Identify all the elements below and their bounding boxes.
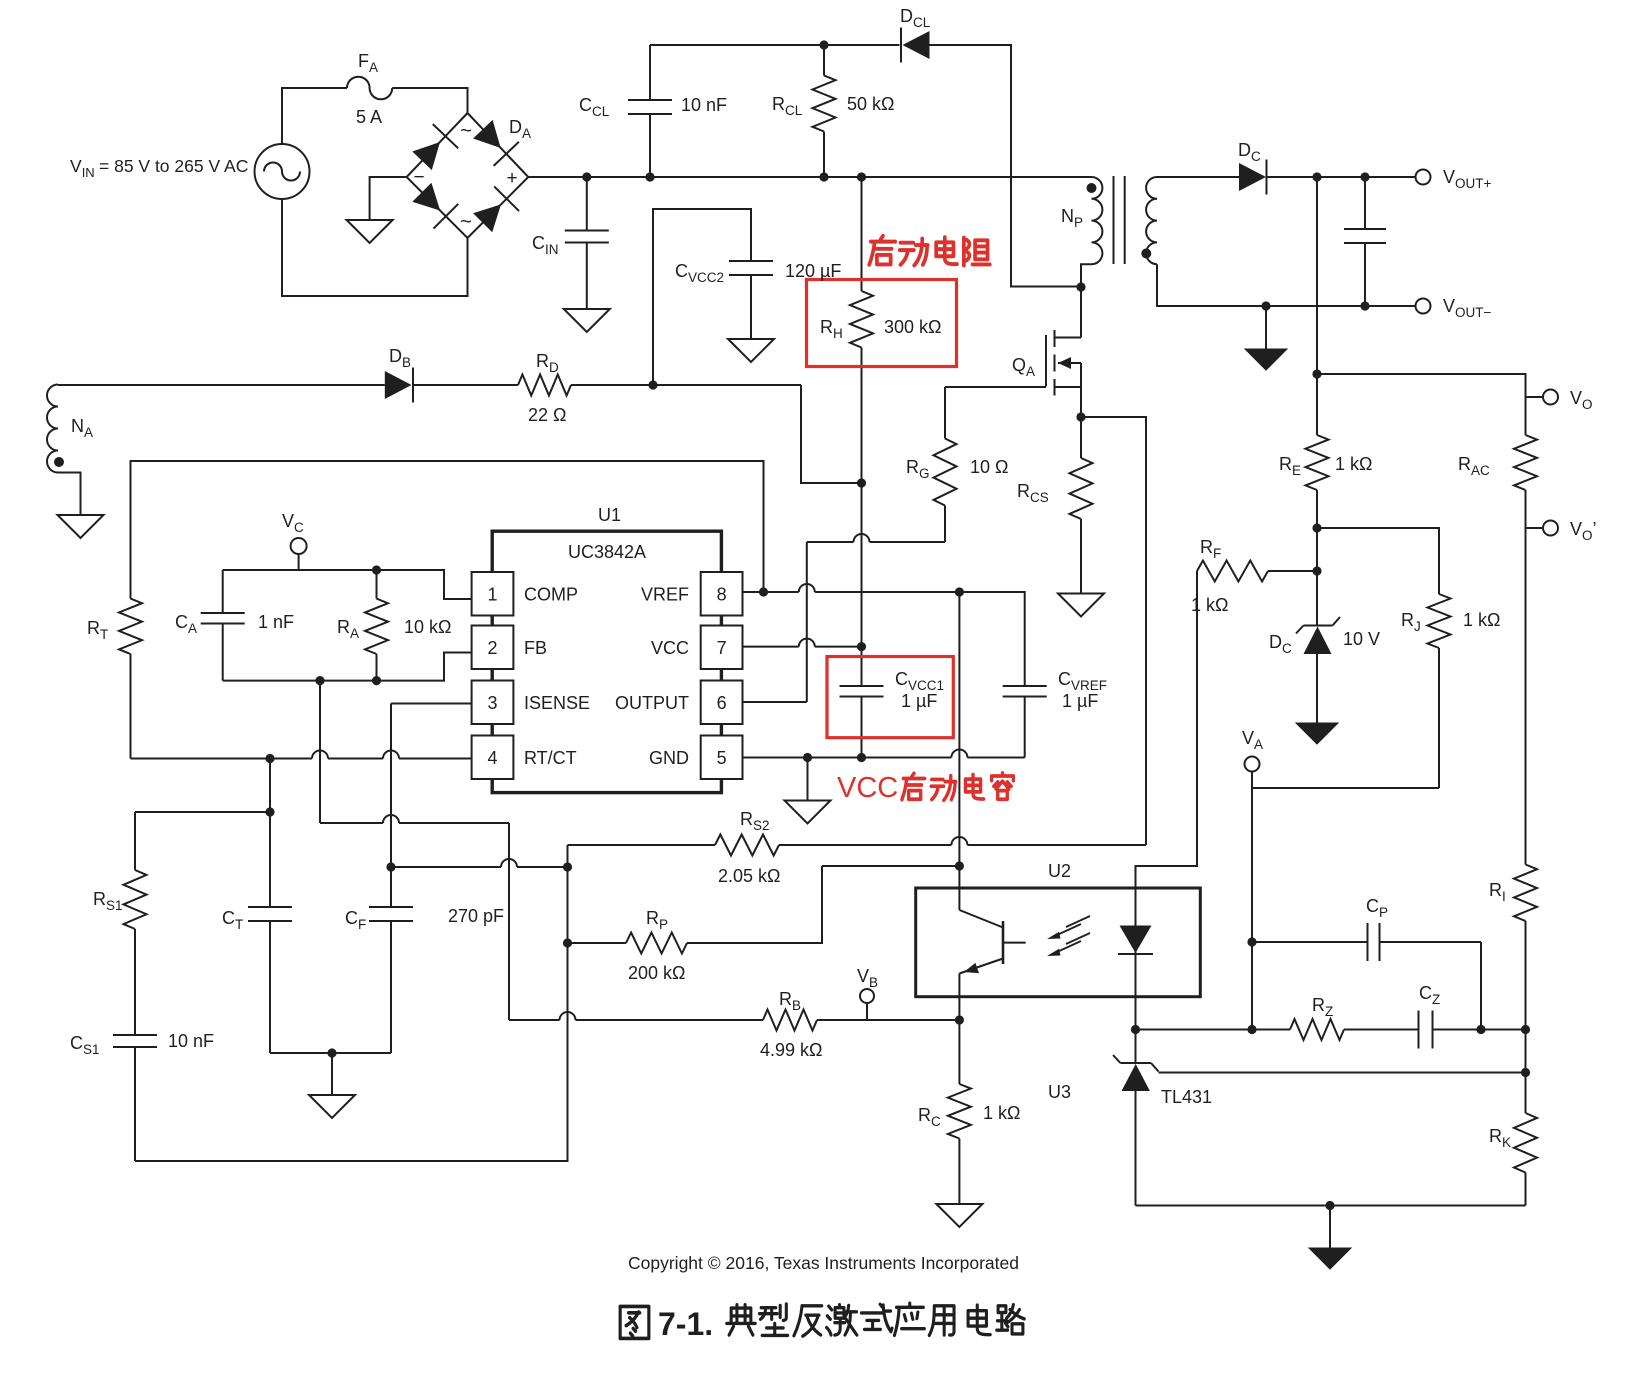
junction source node (1076, 412, 1085, 421)
junction primary drain (1076, 282, 1085, 291)
resistor RH (820, 177, 942, 686)
ground at bridge (347, 220, 393, 243)
wire vref loop rail (131, 461, 764, 599)
wire CVCC2 top loop (653, 209, 751, 385)
svg-text:7-1.: 7-1. (658, 1306, 713, 1342)
wire fuse to bridge top (392, 88, 467, 113)
svg-text:1 kΩ: 1 kΩ (983, 1103, 1020, 1123)
bridge diode bottom-right (473, 186, 519, 232)
svg-text:U2: U2 (1048, 861, 1071, 881)
wire fb tap down (320, 681, 509, 1020)
svg-text:−: − (413, 167, 424, 188)
wire gnd stub down (807, 758, 809, 801)
junction top rail RCL (819, 40, 828, 49)
capacitor CVCC2 (675, 261, 841, 339)
resistor RAC (1458, 435, 1537, 865)
wire VCC node to RH line (801, 385, 862, 483)
svg-text:22 Ω: 22 Ω (528, 405, 566, 425)
svg-text:1: 1 (487, 584, 497, 604)
svg-text:OUTPUT: OUTPUT (615, 693, 689, 713)
optocoupler U2 box (916, 861, 1201, 997)
junction vert RS2 (563, 862, 572, 871)
junction collector (955, 861, 964, 870)
red label vcc startup cap (837, 772, 1013, 804)
phase dot secondary (1141, 249, 1151, 259)
resistor RCL (772, 45, 894, 177)
svg-text:~: ~ (460, 120, 472, 142)
ground at timing (309, 1095, 355, 1118)
resistor RK (1489, 1073, 1537, 1206)
wire source bottom to bridge bottom (282, 199, 468, 296)
wire NA top (58, 384, 385, 386)
svg-text:~: ~ (460, 211, 472, 233)
junction VA CP (1247, 937, 1256, 946)
wire NA to ground (58, 473, 81, 516)
wire RD to VCC node (571, 384, 801, 386)
ground at RCS (1058, 594, 1104, 617)
svg-text:270 pF: 270 pF (448, 906, 504, 926)
capacitor CZ (1419, 983, 1526, 1049)
wire to output ground (1265, 306, 1267, 349)
junction rs1 tap (265, 807, 274, 816)
svg-text:6: 6 (717, 693, 727, 713)
svg-text:300 kΩ: 300 kΩ (884, 317, 942, 337)
wire rtct down (269, 759, 271, 908)
wire vcc pin7 (743, 639, 862, 647)
ground at CVCC2 (728, 339, 774, 362)
wire bottom left rail (135, 845, 568, 1161)
svg-text:VREF: VREF (641, 584, 689, 604)
wire fb tap to RB (509, 1012, 763, 1020)
transformer primary NP (1061, 177, 1102, 264)
svg-text:1 kΩ: 1 kΩ (1463, 610, 1500, 630)
junction out1 (1312, 172, 1321, 181)
resistor RZ (1252, 995, 1419, 1040)
svg-text:1 µF: 1 µF (1062, 691, 1098, 711)
resistor RC (918, 1020, 1020, 1204)
wire vref pin8 (743, 591, 764, 593)
terminal VO (1526, 388, 1593, 412)
bridge diode top-left (412, 124, 458, 170)
junction sec gnd (1261, 301, 1270, 310)
svg-text:FB: FB (524, 638, 547, 658)
resistor RT (87, 599, 142, 759)
wire ct cf bottom (270, 1052, 391, 1054)
resistor RG (906, 387, 1008, 542)
pin 2 FB (472, 626, 547, 670)
transformer secondary (1146, 177, 1157, 264)
junction vert RP (563, 938, 572, 947)
wire dc bus (528, 176, 1091, 178)
junction vref collector (955, 587, 964, 596)
bridge diode bottom-left (412, 183, 458, 229)
capacitor CIN (532, 177, 609, 309)
transformer core (1114, 176, 1125, 264)
resistor RS1 (93, 812, 147, 1035)
junction VA RZ (1247, 1025, 1256, 1034)
wire gate lead (945, 386, 1046, 388)
resistor RD (518, 351, 571, 425)
junction vcc (857, 642, 866, 651)
junction bus CCL (645, 172, 654, 181)
junction outcap bottom (1360, 301, 1369, 310)
wire RP to collector (687, 866, 959, 943)
capacitor CT (222, 907, 292, 1053)
svg-text:10 nF: 10 nF (681, 95, 727, 115)
junction RE RJ (1312, 523, 1321, 532)
pin 6 OUTPUT (615, 681, 743, 725)
svg-text:2: 2 (487, 638, 497, 658)
svg-text:VCC: VCC (651, 638, 689, 658)
wire DB to RD (413, 384, 518, 386)
junction bus RH (857, 172, 866, 181)
wire comp rail (223, 570, 472, 599)
wire clamp top rail left (650, 44, 900, 46)
junction timing gnd (327, 1048, 336, 1057)
phase dot NP (1087, 183, 1097, 193)
junction bottom gnd (1325, 1201, 1334, 1210)
wire output net (743, 534, 945, 702)
svg-text:4.99 kΩ: 4.99 kΩ (760, 1040, 823, 1060)
resistor RF (1191, 537, 1317, 615)
bridge labels (413, 117, 531, 233)
wire bottom right rail (1136, 1205, 1526, 1207)
junction fb tap (315, 676, 324, 685)
junction out2 (1360, 172, 1369, 181)
svg-text:= 85 V to 265 V AC: = 85 V to 265 V AC (99, 156, 248, 176)
wire source top to fuse (282, 88, 347, 144)
capacitor CA (175, 570, 294, 681)
wire RF to LED (1136, 571, 1198, 926)
svg-text:10 Ω: 10 Ω (970, 457, 1008, 477)
wire timing gnd stub (331, 1053, 333, 1095)
svg-text:5 A: 5 A (356, 107, 382, 127)
ground at zener (1296, 723, 1338, 744)
capacitor CS1 (70, 1031, 214, 1161)
resistor RJ (1401, 594, 1500, 788)
svg-text:5: 5 (717, 748, 727, 768)
svg-text:RT/CT: RT/CT (524, 748, 577, 768)
transistor QA mosfet (1012, 330, 1081, 417)
svg-text:3: 3 (487, 693, 497, 713)
svg-text:U3: U3 (1048, 1082, 1071, 1102)
junction bus RCL (819, 172, 828, 181)
shunt regulator U3 TL431 (1048, 1030, 1212, 1206)
opto light arrows (1047, 916, 1090, 956)
svg-text:2.05 kΩ: 2.05 kΩ (718, 866, 781, 886)
wire vref right (764, 584, 960, 592)
pin 4 RT/CT (472, 736, 577, 780)
bridge rectifier DA diamond (407, 113, 529, 238)
junction RD CVCC2 (648, 380, 657, 389)
svg-text:Copyright © 2016, Texas Instru: Copyright © 2016, Texas Instruments Inco… (628, 1253, 1019, 1273)
svg-text:50 kΩ: 50 kΩ (847, 94, 894, 114)
red box around RH (807, 280, 957, 367)
phase dot NA (54, 457, 64, 467)
pin 3 ISENSE (472, 681, 590, 725)
junction isense RS2 (386, 862, 395, 871)
capacitor CVCC1 (840, 669, 945, 758)
resistor RP (568, 908, 688, 983)
resistor RCS (1017, 417, 1093, 594)
wire RE to RJ (1317, 528, 1439, 594)
ground at RC (936, 1204, 982, 1227)
junction fb RA (372, 676, 381, 685)
svg-text:VCC: VCC (837, 772, 898, 804)
wire LED to RZ (1136, 1029, 1253, 1031)
pin 7 VCC (651, 626, 743, 670)
junction rtct (265, 754, 274, 763)
terminal VOUT- (1416, 296, 1492, 320)
red box around CVCC1 (827, 657, 953, 738)
svg-text:COMP: COMP (524, 584, 578, 604)
wire secondary top (1157, 176, 1239, 178)
pin 5 GND (649, 736, 743, 780)
ground at CIN (564, 309, 610, 332)
wire to VO (1317, 374, 1526, 435)
output capacitor (1344, 177, 1386, 306)
wire isense (391, 704, 472, 908)
wire VA down (1251, 788, 1253, 1030)
wire bridge minus to ground (370, 177, 407, 220)
junction RZ RI (1521, 1025, 1530, 1034)
diode DC output (1238, 140, 1267, 195)
svg-text:200 kΩ: 200 kΩ (628, 963, 686, 983)
rs2 labels (718, 809, 781, 886)
svg-text:120 µF: 120 µF (785, 261, 841, 281)
capacitor CCL (579, 45, 727, 177)
ground at pin5 (785, 801, 831, 824)
wire RJ to VA (1252, 787, 1439, 789)
opto LED (1118, 926, 1153, 1030)
terminal VO2 (1526, 519, 1597, 543)
junction comp RA (372, 565, 381, 574)
wire RS2 to sense (779, 837, 1146, 845)
terminal VB (857, 966, 878, 1020)
wire gnd pin5 (743, 750, 1025, 758)
svg-text:4: 4 (487, 748, 497, 768)
resistor RS2 (568, 835, 780, 856)
junction gnd cvcc1 (857, 753, 866, 762)
pin 1 COMP (472, 572, 578, 616)
wire to RS1 (135, 811, 270, 813)
resistor RA (337, 570, 451, 681)
capacitor CP (1252, 896, 1481, 1030)
svg-text:7: 7 (717, 638, 727, 658)
zener diode DC (1269, 617, 1380, 723)
junction RH VCC (857, 478, 866, 487)
auxiliary winding NA (47, 385, 93, 473)
junction vref loop (759, 587, 768, 596)
resistor RI (1489, 865, 1537, 1030)
svg-text:ISENSE: ISENSE (524, 693, 590, 713)
fuse FA (347, 51, 392, 127)
diode DCL (900, 6, 931, 63)
terminal VC (282, 511, 307, 570)
wire TL431 ref (1159, 1072, 1526, 1074)
terminal VA (1242, 728, 1263, 788)
svg-text:UC3842A: UC3842A (568, 542, 646, 562)
opto phototransistor (959, 866, 1025, 1020)
wire RI to RK (1525, 1030, 1527, 1073)
junction CP RZ (1476, 1025, 1485, 1034)
caption figure title (620, 1303, 1024, 1342)
svg-text:10 kΩ: 10 kΩ (404, 617, 451, 637)
terminal VOUT+ (1416, 167, 1492, 191)
svg-text:1 kΩ: 1 kΩ (1335, 454, 1372, 474)
svg-text:GND: GND (649, 748, 689, 768)
junction ref RI (1521, 1068, 1530, 1077)
copyright line (628, 1253, 1019, 1273)
svg-text:8: 8 (717, 584, 727, 604)
svg-text:1 µF: 1 µF (901, 691, 937, 711)
wire collector line (958, 592, 960, 866)
wire primary bottom (1081, 264, 1092, 337)
ac source VIN (70, 144, 310, 199)
wire rtct (131, 751, 472, 759)
pin 8 VREF (641, 572, 743, 616)
capacitor CVREF (1003, 669, 1107, 758)
junction emitter RB (955, 1015, 964, 1024)
wire DC to VOUT+ (1267, 176, 1416, 178)
junction LED RZ (1131, 1025, 1140, 1034)
junction VO branch (1312, 369, 1321, 378)
junction RF node (1312, 566, 1321, 575)
wire VOUT node down (1316, 177, 1318, 435)
diode DB (385, 346, 413, 403)
wire secondary bottom (1157, 264, 1416, 306)
ic U1 body (492, 505, 721, 793)
wire isense to vert (391, 859, 568, 867)
svg-text:1 nF: 1 nF (258, 612, 294, 632)
wire clamp top rail right (930, 45, 1082, 287)
junction gnd stub (803, 753, 812, 762)
capacitor CF (345, 906, 504, 1053)
resistor RB (760, 989, 959, 1060)
red label startup resistor (869, 236, 990, 266)
ground at output (1245, 349, 1287, 370)
wire gnd stub (1329, 1206, 1331, 1249)
ground at TL431 (1309, 1248, 1351, 1269)
ground at NA (58, 515, 104, 538)
wire source to sense line (1081, 417, 1146, 845)
svg-text:+: + (506, 168, 517, 189)
bridge diode top-right (473, 120, 519, 166)
svg-text:U1: U1 (598, 505, 621, 525)
wire vref to cvref (959, 592, 1024, 686)
resistor RE (1279, 435, 1372, 626)
junction bus CIN (582, 172, 591, 181)
svg-text:TL431: TL431 (1161, 1087, 1212, 1107)
svg-text:10 nF: 10 nF (168, 1031, 214, 1051)
svg-text:10 V: 10 V (1343, 629, 1380, 649)
wire fb rail (223, 653, 472, 681)
